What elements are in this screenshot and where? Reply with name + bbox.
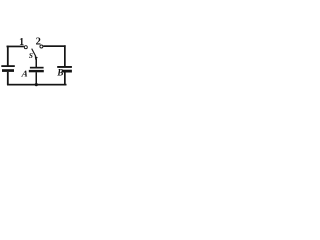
capacitor left: top plate [1, 65, 15, 67]
wire top-right segment [43, 45, 65, 47]
svg-text:2: 2 [36, 37, 41, 48]
capacitor left: bottom plate [2, 69, 14, 72]
capacitor A top plate [30, 67, 44, 69]
middle branch wire lower [36, 72, 38, 84]
capacitor A bottom plate [29, 70, 44, 72]
wire top-left segment [7, 46, 24, 48]
capacitor B bottom plate [62, 70, 72, 73]
switch arm arrowhead [35, 56, 38, 60]
switch contact 2 circle [40, 45, 43, 48]
middle branch wire upper [36, 59, 38, 67]
left rail wire lower [7, 72, 9, 85]
capacitor B top plate [57, 66, 72, 68]
svg-text:A: A [20, 69, 28, 79]
svg-text:S: S [29, 52, 33, 60]
bottom wire [7, 84, 67, 86]
junction node dot [35, 83, 38, 86]
right rail wire upper [64, 45, 66, 66]
switch S arm [32, 49, 36, 57]
left rail wire upper [7, 46, 9, 66]
right rail wire lower [64, 72, 66, 85]
svg-text:1: 1 [19, 37, 24, 48]
switch contact 1 circle [24, 46, 27, 49]
svg-text:B: B [56, 68, 63, 78]
